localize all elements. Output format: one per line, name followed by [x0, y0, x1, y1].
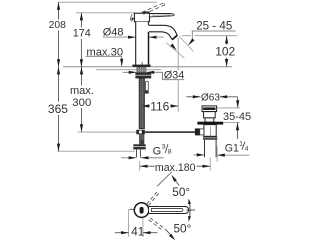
lever raised dashed [142, 3, 165, 14]
hose end pipe [137, 149, 141, 157]
dimension Ø63 [186, 93, 237, 104]
linkage rod to drain [78, 131, 196, 133]
svg-text:25 - 45: 25 - 45 [196, 20, 232, 33]
top view pivot oval [140, 207, 144, 214]
pull rod pivot joint [136, 130, 145, 135]
swing arc with arrows [186, 198, 195, 221]
svg-text:300: 300 [72, 97, 91, 109]
dimension 174 [73, 13, 91, 67]
dimension max.180 [140, 158, 211, 174]
dimension 208 [49, 2, 67, 67]
spout [149, 25, 178, 40]
supply hose braided [139, 78, 144, 128]
drain tailpipe [205, 140, 217, 158]
dimension G1 1/4 [193, 141, 249, 163]
svg-text:41: 41 [131, 226, 144, 239]
top view lever [149, 207, 189, 214]
svg-text:Ø48: Ø48 [103, 26, 124, 38]
counter bottom line [96, 69, 161, 71]
top view left tick [129, 208, 134, 210]
extension line hose end level [58, 150, 135, 152]
dimension 35-45 [217, 97, 251, 139]
threaded shank [137, 67, 146, 73]
water stream lines [166, 36, 194, 58]
top view circle [134, 203, 149, 218]
svg-text:Ø34: Ø34 [164, 69, 184, 81]
hose below joint [139, 134, 144, 144]
dimension 25 - 45 [187, 20, 235, 47]
drain body [204, 125, 216, 137]
svg-text:1: 1 [239, 141, 243, 148]
label 50deg upper [172, 185, 190, 199]
svg-text:208: 208 [49, 20, 67, 31]
svg-text:G: G [153, 145, 162, 157]
base flange [132, 65, 150, 67]
dimension 365 [48, 67, 68, 151]
svg-text:50°: 50° [172, 185, 190, 199]
dimension max.300 [70, 67, 94, 132]
mounting nut [135, 73, 151, 79]
dimension max.30 [86, 46, 124, 66]
svg-text:Ø63: Ø63 [201, 93, 220, 104]
dimension 41 [115, 209, 158, 238]
G3/8 hose nut [133, 144, 145, 149]
lever swing dashed lower 50deg [149, 218, 177, 241]
drain flange [197, 122, 223, 125]
svg-text:50°: 50° [174, 222, 192, 236]
svg-text:116: 116 [150, 100, 169, 114]
outlet level line [182, 35, 237, 37]
dimension Ø48 [103, 26, 164, 39]
dimension 102 [215, 36, 235, 67]
svg-text:102: 102 [215, 44, 235, 58]
svg-text:max.: max. [70, 85, 94, 97]
side tube [145, 81, 149, 93]
svg-text:max.30: max.30 [86, 46, 123, 58]
svg-text:3: 3 [162, 144, 166, 151]
drain knob cylinder [204, 112, 216, 123]
svg-text:365: 365 [48, 102, 68, 116]
lever handle [149, 14, 174, 17]
drain rod connector [195, 128, 204, 135]
dimension Ø34 [123, 69, 185, 81]
drain nut [203, 136, 217, 139]
extension line top (lever raised level) [59, 1, 158, 3]
svg-text:G1: G1 [225, 142, 239, 154]
dimension 116 [142, 100, 179, 114]
svg-text:4: 4 [245, 145, 249, 152]
lever swing dashed upper 50deg [147, 172, 180, 206]
svg-text:35-45: 35-45 [223, 111, 251, 123]
drain knob cap [202, 106, 217, 112]
extension line faucet top level [76, 12, 135, 14]
svg-text:max.180: max.180 [155, 162, 196, 174]
lever rotation arc at cap [130, 14, 134, 22]
faucet cap [134, 12, 149, 22]
label 50deg lower [174, 222, 192, 236]
dimension G3/8 [121, 144, 172, 160]
svg-text:8: 8 [168, 148, 172, 155]
faucet body [136, 22, 149, 65]
counter top line [63, 66, 232, 68]
svg-text:174: 174 [73, 28, 91, 40]
outlet extension line down to counter [177, 38, 179, 112]
